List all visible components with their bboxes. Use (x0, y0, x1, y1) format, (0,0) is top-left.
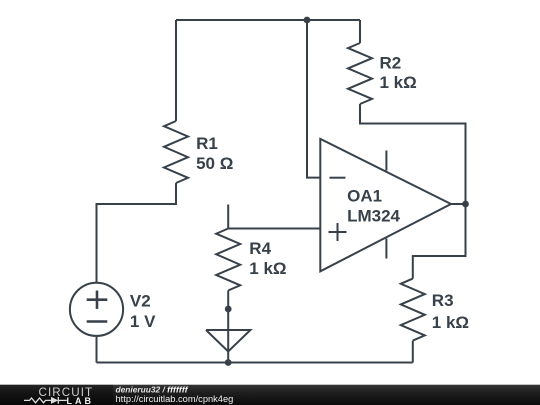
resistor R2 (348, 43, 372, 104)
svg-text:1 kΩ: 1 kΩ (380, 73, 417, 92)
svg-text:R1: R1 (196, 134, 218, 153)
V2 plus symbol (87, 291, 108, 322)
wire inverting input from top rail node (307, 20, 320, 178)
op-amp OA1 triangle (320, 139, 451, 271)
resistor R4 (216, 229, 240, 291)
op-amp minus input symbol (330, 177, 346, 179)
resistor R1 (164, 121, 188, 183)
wire R2 bottom to opamp output node (360, 104, 466, 204)
logo schematic squiggle and diode (24, 397, 67, 404)
node junction output (462, 201, 469, 208)
logo diode triangle (51, 397, 58, 404)
node junction bottom rail (225, 359, 232, 366)
wire top rail (176, 19, 360, 21)
wire noninverting input (228, 228, 320, 230)
wire V2 bottom to bottom rail (96, 336, 98, 363)
svg-text:denieruu32 / fffffff: denieruu32 / fffffff (116, 385, 189, 395)
wire bottom rail (97, 362, 413, 364)
wire left branch down from top rail to R1 (175, 20, 177, 121)
ground (206, 330, 250, 352)
svg-text:R4: R4 (249, 239, 271, 258)
wire R4 bottom to ground node (227, 291, 229, 363)
svg-text:OA1: OA1 (347, 186, 382, 205)
svg-text:V2: V2 (130, 291, 151, 310)
wire R3 bottom to bottom rail (412, 341, 414, 363)
resistor R3 (401, 279, 425, 341)
svg-text:R2: R2 (380, 54, 402, 73)
wire output node down to R3 (413, 204, 466, 279)
svg-text:http://circuitlab.com/cpnk4eg: http://circuitlab.com/cpnk4eg (116, 394, 234, 404)
op-amp V+ power pin (385, 151, 387, 171)
svg-text:R3: R3 (432, 291, 454, 310)
node junction top (304, 17, 311, 24)
voltage source V2 (70, 283, 123, 336)
resistor R4 top stub (227, 205, 229, 229)
svg-text:1 kΩ: 1 kΩ (249, 259, 286, 278)
op-amp plus input symbol (329, 231, 347, 233)
V2 minus symbol (87, 320, 108, 323)
op-amp output lead (451, 203, 466, 205)
svg-text:1 kΩ: 1 kΩ (432, 313, 469, 332)
svg-text:LM324: LM324 (347, 206, 400, 225)
svg-text:50 Ω: 50 Ω (196, 154, 233, 173)
svg-text:1 V: 1 V (130, 312, 156, 331)
wire R2 top lead from rail (359, 20, 361, 43)
node junction R4-ground (225, 306, 232, 313)
svg-text:LAB: LAB (67, 396, 95, 405)
wire R1 bottom to corner (97, 183, 177, 283)
op-amp V- power pin (385, 239, 387, 259)
